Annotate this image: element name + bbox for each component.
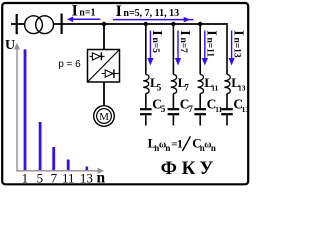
current arrow I n=5,7,11,13 (points right) <box>113 19 193 21</box>
motor M1 inner circle <box>97 109 112 124</box>
bar n=13 <box>86 167 89 171</box>
svg-text:I: I <box>149 30 164 35</box>
bar n=11 <box>67 160 70 171</box>
svg-text:7: 7 <box>184 82 189 92</box>
wire branch 3 down <box>199 24 201 75</box>
transformer T1 winding 1 <box>25 16 43 34</box>
svg-text:11: 11 <box>211 83 218 92</box>
svg-text:n=5: n=5 <box>150 38 160 54</box>
svg-text:5: 5 <box>157 82 162 92</box>
svg-text:I: I <box>204 30 219 35</box>
wire bus to rectifier <box>103 24 105 50</box>
svg-text:13: 13 <box>238 83 246 92</box>
wire C13 stub <box>226 115 228 125</box>
inductor L7 coil <box>171 75 177 94</box>
inductor L11 coil <box>198 75 204 94</box>
svg-text:n=1: n=1 <box>79 8 95 19</box>
svg-text:U: U <box>5 38 15 53</box>
wire L5 to C5 <box>145 94 147 109</box>
svg-text:n: n <box>97 170 106 187</box>
svg-text:I: I <box>116 3 122 20</box>
bar n=7 <box>52 147 55 170</box>
wire C11 stub <box>199 115 201 125</box>
svg-text:n: n <box>211 143 216 153</box>
motor M1 outer circle <box>94 106 115 127</box>
wire L7 to C7 <box>172 94 174 109</box>
chart Y axis <box>16 49 18 172</box>
svg-text:n: n <box>165 143 170 153</box>
svg-text:n=5, 7, 11, 13: n=5, 7, 11, 13 <box>123 8 179 19</box>
svg-text:n=13: n=13 <box>231 38 241 58</box>
inductor L13 coil <box>224 75 230 94</box>
svg-text:1: 1 <box>22 170 29 185</box>
wire bus main <box>54 23 228 25</box>
wire rectifier to motor <box>103 82 105 106</box>
current arrow I n=7 branch (points down) <box>177 31 179 61</box>
svg-text:7: 7 <box>188 104 193 114</box>
wire bus corner to branch 4 <box>226 23 228 74</box>
capacitor C13 <box>221 109 233 114</box>
wire L11 to C11 <box>199 94 201 109</box>
node junction branch 1 <box>144 22 148 26</box>
current arrow I n=13 branch (points down) <box>231 31 233 61</box>
node junction branch 2 <box>171 22 175 26</box>
svg-text:M: M <box>99 111 109 123</box>
rectifier U1 box <box>88 50 120 83</box>
current arrow I n=5 branch (points down) <box>149 31 151 61</box>
svg-text:13: 13 <box>242 105 250 114</box>
bar n=5 <box>39 122 42 170</box>
svg-text:7: 7 <box>51 170 58 185</box>
svg-text:Ф: Ф <box>161 158 177 179</box>
svg-text:К: К <box>182 158 196 179</box>
wire C7 stub <box>172 115 174 125</box>
svg-text:1: 1 <box>177 137 183 151</box>
svg-text:11: 11 <box>62 170 75 185</box>
svg-text:n=11: n=11 <box>205 38 215 58</box>
current arrow I n=11 branch (points down) <box>204 31 206 61</box>
wire C5 stub <box>145 115 147 125</box>
label I n=5 (rotated) <box>149 30 164 53</box>
wire L13 to C13 <box>226 94 228 109</box>
label I n=7 (rotated) <box>177 30 192 53</box>
label I n=11 (rotated) <box>204 30 219 57</box>
inductor L5 coil <box>143 75 149 94</box>
svg-text:13: 13 <box>80 170 93 185</box>
node junction branch 3 <box>198 22 202 26</box>
terminal bar left <box>16 14 18 34</box>
current arrow I n=1 (points left) <box>70 18 100 20</box>
wire branch 1 down <box>145 24 147 75</box>
rectifier diagonal <box>88 50 120 83</box>
capacitor C7 <box>168 109 180 114</box>
chart X axis <box>16 170 98 172</box>
label I n=13 (rotated) <box>230 30 245 58</box>
diode D1 <box>90 52 105 60</box>
svg-text:n=7: n=7 <box>178 38 188 54</box>
svg-text:p = 6: p = 6 <box>58 59 81 70</box>
capacitor C11 <box>194 109 206 114</box>
svg-text:I: I <box>177 30 192 35</box>
bar n=1 <box>24 49 27 170</box>
svg-text:5: 5 <box>161 104 166 114</box>
svg-text:5: 5 <box>37 170 44 185</box>
transformer T1 winding 2 <box>36 16 54 34</box>
terminal bar right <box>60 14 62 35</box>
formula L_n w_n = 1 / C_n w_n <box>148 136 183 153</box>
svg-text:I: I <box>230 30 245 35</box>
svg-text:У: У <box>199 158 213 179</box>
node junction to rectifier <box>102 22 106 26</box>
diode D2 <box>102 69 119 78</box>
wire branch 2 down <box>172 24 174 75</box>
wire bus left stub <box>11 23 25 25</box>
capacitor C5 <box>140 109 152 114</box>
